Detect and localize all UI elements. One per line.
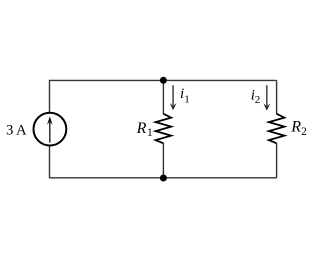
label i2: [251, 87, 261, 106]
resistor R1 (zigzag): [156, 114, 172, 144]
node B: bottom junction dot: [160, 175, 167, 182]
label i1: [180, 86, 190, 106]
label R2: [290, 119, 307, 138]
wire: left branch upper segment: [49, 80, 51, 113]
label R1: [136, 120, 153, 139]
current arrow i1 (downward): [170, 85, 177, 110]
current source I1 (3 A): circle with upward arrow: [34, 113, 67, 146]
svg-text:1: 1: [147, 127, 153, 139]
svg-text:R: R: [136, 120, 147, 137]
node A: top junction dot: [160, 77, 167, 84]
wire: R2 bottom lead: [276, 143, 278, 178]
current arrow i2 (downward): [263, 85, 270, 110]
wire: R2 top lead: [276, 80, 278, 114]
wire: bottom horizontal rail (net B): [49, 177, 276, 179]
wire: left branch lower segment: [49, 145, 51, 178]
svg-text:1: 1: [184, 94, 190, 106]
svg-text:3 A: 3 A: [6, 123, 27, 139]
wire: top horizontal rail (net A): [49, 79, 276, 81]
wire: R1 top lead: [162, 80, 164, 114]
wire: R1 bottom lead: [162, 143, 164, 178]
svg-text:2: 2: [255, 94, 261, 106]
svg-text:2: 2: [301, 126, 307, 138]
svg-text:R: R: [290, 119, 301, 136]
resistor R2 (zigzag): [269, 114, 285, 144]
